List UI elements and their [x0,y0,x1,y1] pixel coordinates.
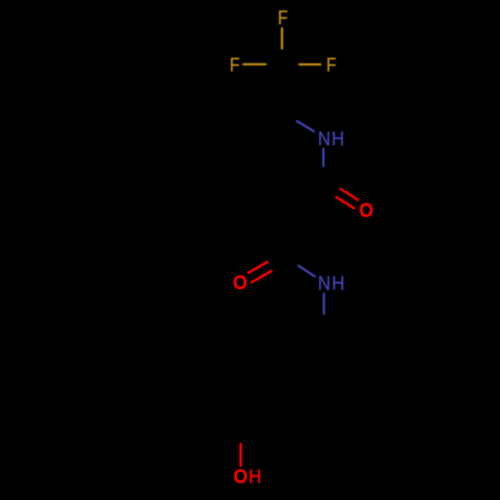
label F right [328,58,336,72]
label ring N1 (H) [333,132,343,146]
bond C-F top (gold half) [281,28,283,48]
double bond amide C=O upper red line [248,262,267,273]
label amide N (H) [333,276,343,290]
label phenol H [250,470,260,484]
bond C6-N1 (blue half) [297,121,314,131]
bond N-aryl (blue half) [323,294,325,314]
bond N1-C2 (blue half) [322,149,324,166]
bond C-F right (gold half) [299,63,320,65]
label amide O [234,276,246,289]
label amide N (N) [319,276,329,290]
label F top [279,11,287,25]
label ring N1 (N) [319,132,329,146]
bond phenol C-O (red half) [239,444,242,466]
double bond amide C=O lower red line [252,271,272,282]
bond amideC-N (blue half) [298,266,314,277]
label phenol O [235,470,247,483]
label ketone O [360,204,372,217]
bond C-F left (gold half) [244,63,266,65]
double bond C2=O upper red line [341,189,358,200]
label F left [231,58,239,72]
double bond C2=O lower red line [337,197,355,208]
